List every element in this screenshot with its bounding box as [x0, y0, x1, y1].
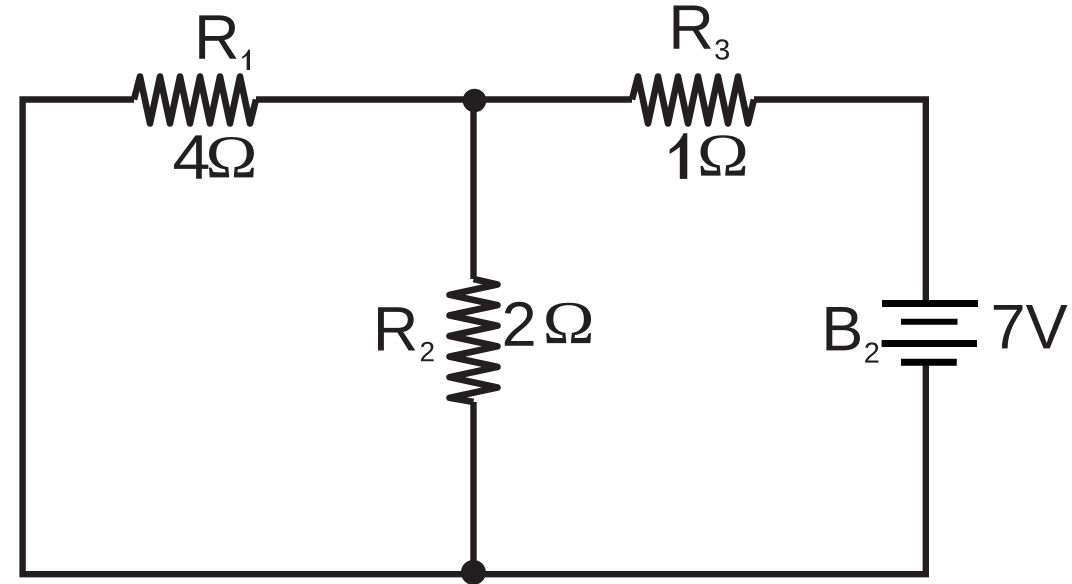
label R2	[378, 307, 434, 361]
label R1	[199, 15, 250, 70]
label R2 value 2Ω	[505, 302, 591, 346]
resistor R3	[632, 77, 754, 124]
battery B2	[882, 304, 978, 363]
battery plate 4 (short, negative)	[901, 359, 957, 366]
battery plate 2 (short)	[901, 319, 958, 325]
label B2	[826, 307, 878, 363]
resistor R2	[450, 279, 498, 402]
label R1 value 4Ω	[174, 135, 254, 178]
label R3	[674, 5, 729, 59]
node B junction dot	[461, 560, 486, 584]
node A junction dot	[463, 89, 487, 113]
wire: from R2 down to node B	[470, 402, 476, 572]
wire: from R1 to R3 through node A	[256, 96, 632, 102]
wire: from R3 to battery positive terminal	[754, 100, 926, 301]
resistor R1	[134, 77, 256, 124]
label B2 value 7V	[994, 305, 1023, 348]
wire: battery negative lead, right-bottom-left loop up to R1 left lead	[23, 100, 926, 575]
battery plate 3 (long)	[882, 340, 977, 347]
wire: from node A down to R2	[470, 100, 476, 280]
label R3 value 1Ω	[670, 133, 746, 179]
battery plate 1 (long, positive)	[882, 300, 978, 307]
